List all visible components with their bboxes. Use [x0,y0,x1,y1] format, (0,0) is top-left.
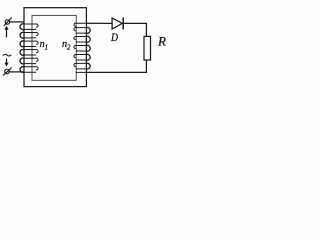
secondary winding n2 (5 turns on right leg) [74,23,90,72]
svg-text:R: R [157,34,166,49]
svg-text:n2: n2 [62,39,71,51]
transformer core inner rectangle (window) [32,15,76,80]
diode D (triangle + cathode bar) [112,18,123,30]
wire bottom-left terminal to transformer [9,71,24,73]
arrow up (points to top terminal) [4,26,8,38]
AC terminal bottom (circle with slash) [3,68,11,76]
svg-text:D: D [110,30,118,44]
arrow down (points to bottom terminal) [4,58,8,66]
resistor R body [144,36,151,60]
wire diode to top-right corner and down [124,23,146,36]
svg-text:n1: n1 [40,39,49,51]
primary winding n1 (6 turns on left leg) [20,24,38,73]
wire transformer to diode [86,22,112,24]
wire resistor to bottom and back to transformer [86,60,146,72]
AC tilde symbol [3,54,11,56]
transformer core outer rectangle [24,8,86,87]
AC terminal top (circle with slash) [4,18,12,26]
wire top-left terminal to transformer [10,21,24,23]
